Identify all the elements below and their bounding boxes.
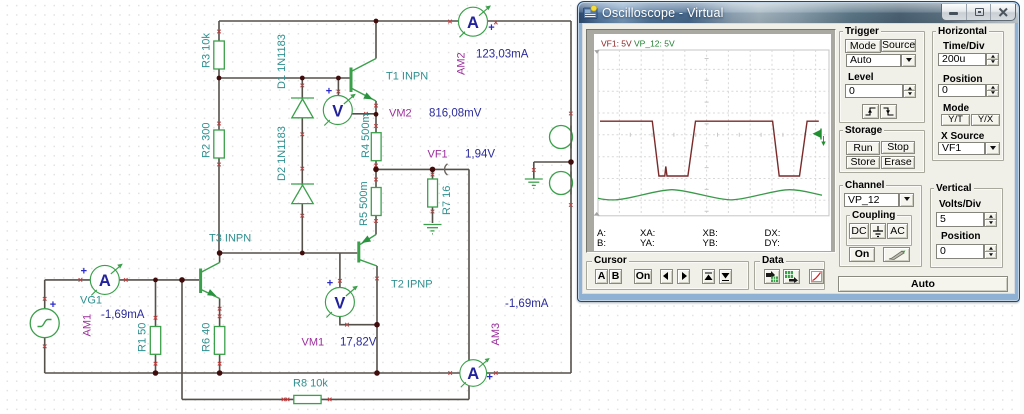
svg-text:+: + bbox=[81, 266, 87, 278]
svg-text:+: + bbox=[488, 22, 494, 34]
svg-text:+: + bbox=[326, 86, 332, 98]
svg-text:R4 500m: R4 500m bbox=[360, 113, 372, 158]
svg-text:D2 1N1183: D2 1N1183 bbox=[276, 126, 288, 181]
svg-text:-1,69mA: -1,69mA bbox=[505, 298, 549, 310]
svg-text:+: + bbox=[50, 299, 56, 311]
svg-text:T1 INPN: T1 INPN bbox=[386, 71, 428, 83]
svg-text:VM2: VM2 bbox=[389, 108, 412, 120]
svg-text:AM1: AM1 bbox=[82, 314, 94, 337]
svg-text:V: V bbox=[332, 102, 343, 120]
svg-text:AM3: AM3 bbox=[490, 323, 502, 346]
svg-text:R5 500m: R5 500m bbox=[358, 181, 370, 226]
svg-text:R1 50: R1 50 bbox=[137, 323, 149, 352]
svg-text:V: V bbox=[334, 294, 345, 312]
svg-text:R2 300: R2 300 bbox=[201, 123, 213, 158]
svg-text:T2 IPNP: T2 IPNP bbox=[391, 279, 433, 291]
svg-text:R7 16: R7 16 bbox=[441, 186, 453, 215]
svg-text:-1,69mA: -1,69mA bbox=[101, 309, 145, 321]
svg-text:17,82V: 17,82V bbox=[340, 337, 377, 349]
svg-text:123,03mA: 123,03mA bbox=[476, 49, 529, 61]
svg-text:A: A bbox=[467, 14, 479, 32]
svg-text:+: + bbox=[327, 278, 333, 290]
svg-text:VG1: VG1 bbox=[80, 295, 102, 307]
svg-text:R8 10k: R8 10k bbox=[293, 378, 328, 390]
svg-text:VM1: VM1 bbox=[302, 337, 325, 349]
svg-text:AM2: AM2 bbox=[456, 52, 468, 75]
svg-text:VF1: VF1 bbox=[428, 149, 448, 161]
svg-text:1,94V: 1,94V bbox=[465, 149, 495, 161]
svg-text:R3 10k: R3 10k bbox=[201, 33, 213, 68]
svg-text:816,08mV: 816,08mV bbox=[429, 108, 482, 120]
svg-text:D1 1N1183: D1 1N1183 bbox=[276, 34, 288, 89]
svg-text:R6 40: R6 40 bbox=[201, 323, 213, 352]
svg-text:A: A bbox=[99, 272, 111, 290]
svg-text:+: + bbox=[486, 372, 492, 384]
svg-text:A: A bbox=[467, 365, 479, 383]
svg-text:T3 INPN: T3 INPN bbox=[209, 233, 251, 245]
